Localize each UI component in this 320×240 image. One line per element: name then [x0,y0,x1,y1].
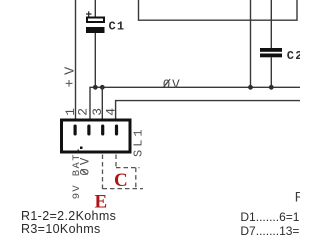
capacitor C1 plus sign [86,11,92,16]
wire dashed pin4 down [115,155,117,168]
svg-text:C2: C2 [287,49,300,63]
label R3 value [21,222,101,236]
capacitor C2 top plate [260,48,282,52]
svg-text:4: 4 [104,108,119,116]
svg-text:+V: +V [63,62,78,87]
wire dashed pin4 horizontal [116,167,140,169]
wire +V vertical [75,0,77,119]
pin 1 bar [74,125,77,136]
label R1-2 values [21,209,116,223]
wire C1 bottom [94,33,96,87]
wire C2 bottom [270,57,272,87]
label D1 values [240,210,320,224]
svg-text:SL1: SL1 [132,126,146,157]
wire drop to 0V left [250,0,252,87]
wire C2 top [270,0,272,48]
wire dashed mid vertical [135,168,137,189]
wire pin3 drop [101,87,103,119]
capacitor C2 bottom plate [260,54,282,58]
wire pin4 with bend to right rail [116,101,300,119]
svg-text:3: 3 [90,108,105,116]
svg-text:C1: C1 [109,20,126,34]
node junction at (250.5,87) [248,85,253,90]
node junction C1/0V [93,85,98,90]
node junction pin3/0V [100,85,105,90]
connector SL1 body [62,120,131,152]
pin 3 bar [101,125,104,136]
pin 2 bar [87,125,90,136]
capacitor C1 bottom plate [86,27,105,33]
wire C1 top [94,0,96,18]
pin1 marker dot [80,147,83,150]
svg-text:C: C [114,170,128,191]
wire dashed bottom horizontal [103,188,144,190]
wire dashed pin3 down [103,155,144,190]
capacitor C1 top plate [87,18,104,23]
slash of 0 in 0V [164,79,171,87]
node junction at (271.3,87) [269,85,274,90]
wire top box edge [139,0,298,20]
label D7 values [240,224,320,238]
pin 4 bar [115,125,118,136]
slash of rotated 0 [81,169,87,174]
svg-text:2: 2 [76,108,91,116]
svg-text:R4: R4 [295,189,300,204]
wire 0V rail [90,87,300,119]
